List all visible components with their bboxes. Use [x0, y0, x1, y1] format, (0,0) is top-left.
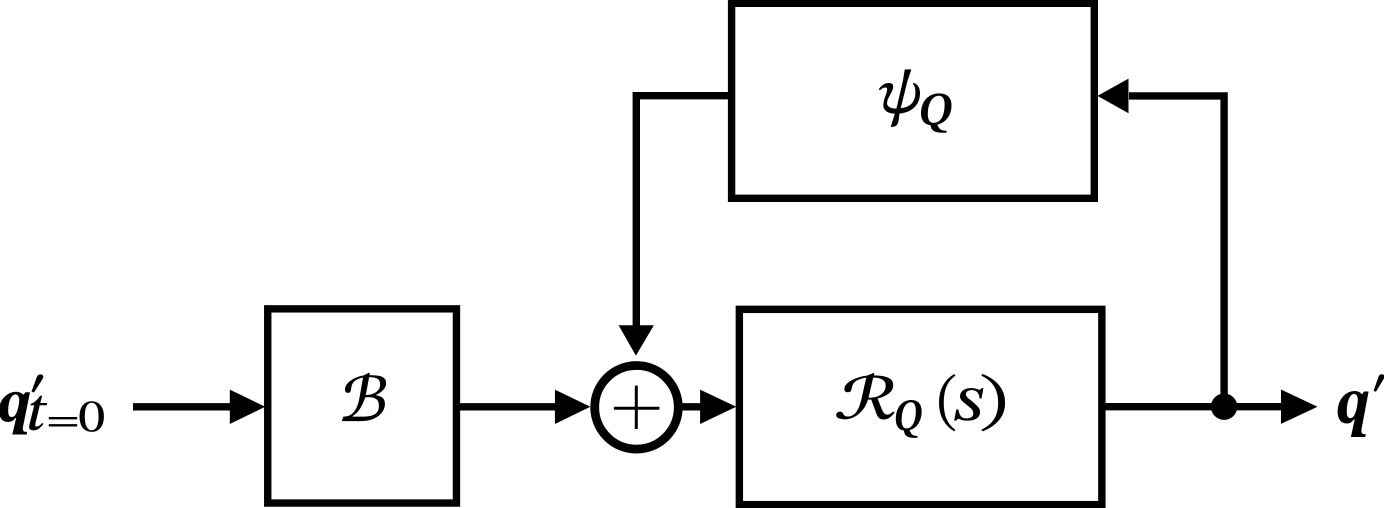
label input q bold: [0, 392, 30, 435]
label s of (s): [954, 388, 983, 421]
label open paren of (s): [939, 374, 955, 431]
block psi_Q (feedback block): [732, 3, 1095, 198]
label subscript zero: [80, 401, 104, 432]
block R_Q(s) (forward block): [739, 309, 1102, 504]
label psi in psi_Q block: [879, 69, 920, 127]
label subscript Q of psi: [921, 93, 952, 132]
label output q prime mark: [1374, 374, 1384, 392]
wire feedback up-right and into psi_Q: [1129, 96, 1224, 410]
wire output from R_Q(s) to q-prime: [1102, 403, 1282, 410]
summing junction circle: [595, 366, 679, 450]
label input q prime mark: [31, 374, 43, 392]
label script R in R_Q(s) block: [836, 373, 895, 420]
block B (input block): [268, 309, 457, 503]
wire from summing junction to R_Q(s): [681, 403, 701, 410]
label script B in B block: [342, 373, 386, 421]
label subscript equals: [49, 417, 77, 427]
wire input arrow into block B: [133, 403, 231, 410]
label subscript t: [29, 396, 47, 431]
label subscript Q of R: [896, 400, 922, 438]
wire from B to summing junction: [456, 403, 556, 410]
label output q bold: [1338, 391, 1369, 437]
wire feedback from psi_Q down to summing junction: [636, 96, 728, 327]
plus sign in summing junction: [614, 386, 660, 429]
node branch dot on output: [1211, 394, 1237, 420]
label close paren of (s): [981, 374, 1005, 431]
